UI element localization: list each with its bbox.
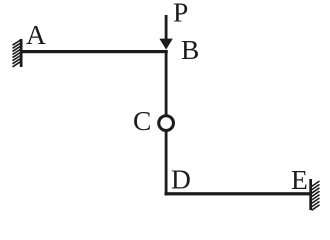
support wall bar at A <box>20 39 23 67</box>
wire member BCD (vertical) <box>165 50 168 195</box>
hinge C circle <box>159 116 174 131</box>
svg-text:D: D <box>171 164 191 195</box>
support wall bar at E <box>309 179 312 210</box>
wire member AB (top beam) <box>21 50 168 53</box>
support hatching at A <box>13 40 21 67</box>
load arrow P shaft <box>165 15 168 41</box>
support hatching at E <box>312 181 320 210</box>
svg-text:P: P <box>173 0 188 28</box>
svg-text:E: E <box>291 164 308 195</box>
wire member DE (bottom beam) <box>165 192 310 195</box>
load arrow P head <box>159 39 172 50</box>
svg-text:A: A <box>26 19 46 50</box>
svg-text:C: C <box>133 105 151 136</box>
svg-text:B: B <box>181 34 199 65</box>
